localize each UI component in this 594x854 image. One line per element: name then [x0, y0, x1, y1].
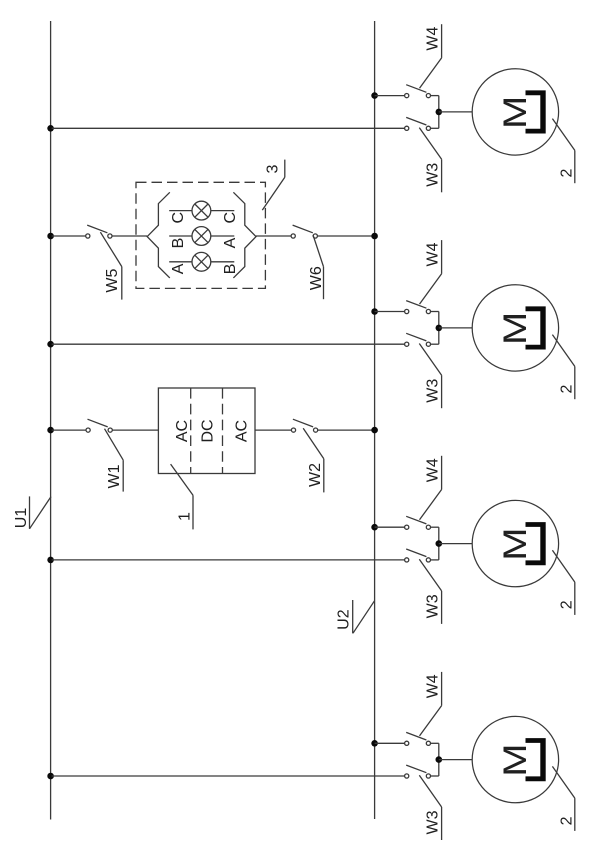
label W2 leader	[303, 428, 324, 459]
node: left bus tap row4	[47, 773, 54, 780]
svg-text:3: 3	[264, 164, 281, 173]
switch W3 contact circles (branch 4)	[405, 774, 409, 778]
wire: bus to W4 contact branch 4	[375, 742, 405, 744]
wire: lamp 3 right lead	[211, 261, 235, 263]
svg-text:B: B	[170, 238, 187, 249]
label W1 underline	[122, 460, 124, 492]
label 2 leader diagonal (branch 2)	[552, 335, 574, 367]
connector brace left	[147, 192, 170, 278]
label W4 leader (branch 3)	[420, 490, 442, 520]
svg-text:AC: AC	[234, 420, 251, 442]
converter unit 1 box	[158, 388, 255, 474]
wire: W3 to junction bar (branch 2)	[431, 343, 439, 345]
svg-text:W6: W6	[308, 266, 325, 290]
switch W5 contact circles	[86, 234, 90, 238]
svg-text:U1: U1	[13, 508, 30, 529]
wire: left bus to switch W5	[52, 235, 86, 237]
wire: feed row from left bus to contact W3 (branch 2)	[52, 343, 405, 345]
switch W2 contact circles	[291, 428, 295, 432]
label W6 underline	[323, 267, 325, 300]
wire: W4 to junction bar (branch 3)	[431, 526, 439, 528]
wire: junction to motor (branch 3)	[439, 543, 472, 545]
wire: junction to motor (branch 1)	[439, 111, 472, 113]
svg-text:M: M	[497, 743, 533, 776]
svg-text:M: M	[497, 312, 533, 345]
wire: W5 to lamp unit connector	[112, 235, 147, 237]
label W5 underline	[121, 267, 123, 300]
node: left bus tap row2	[47, 341, 54, 348]
lamp unit 3 dashed enclosure	[136, 182, 265, 288]
motor M circle (branch 3)	[472, 500, 558, 586]
svg-text:2: 2	[558, 816, 575, 825]
label W3 underline (branch 2)	[441, 375, 443, 408]
wire: junction to motor (branch 2)	[439, 327, 472, 329]
svg-text:W4: W4	[424, 26, 441, 50]
label W4 underline (branch 4)	[441, 672, 443, 706]
wire: lamp unit connector to W6	[256, 235, 291, 237]
label U1 underline	[29, 496, 31, 528]
label W4 leader (branch 2)	[420, 274, 442, 304]
label 2 underline (branch 1)	[574, 150, 576, 183]
wire: bus to W4 contact branch 2	[375, 311, 405, 313]
svg-text:B: B	[222, 264, 239, 275]
svg-text:W4: W4	[424, 242, 441, 266]
lamp 3 cross	[195, 255, 208, 268]
switch W4 blade (branch 1)	[406, 85, 426, 93]
svg-text:A: A	[170, 263, 187, 274]
label W4 underline (branch 1)	[441, 24, 443, 58]
switch W4 contact circles (branch 4)	[405, 741, 409, 745]
label W3 underline (branch 3)	[441, 591, 443, 624]
svg-text:W4: W4	[424, 674, 441, 698]
wire: junction bar (branch 2)	[438, 312, 440, 345]
svg-text:W3: W3	[424, 594, 441, 618]
switch W4 contact circles (branch 2)	[405, 309, 409, 313]
svg-text:C: C	[170, 212, 187, 224]
motor M underline bracket (branch 1)	[526, 90, 546, 133]
label W3 leader (branch 1)	[419, 128, 441, 160]
node: left bus tap lamp row	[47, 233, 54, 240]
wire: W1 to converter box	[112, 429, 158, 431]
switch W5 blade	[87, 225, 107, 233]
motor M circle (branch 1)	[472, 69, 558, 155]
svg-text:W3: W3	[424, 810, 441, 834]
switch W3 blade (branch 1)	[406, 117, 426, 125]
label W3 leader (branch 3)	[419, 559, 441, 591]
label 2 leader diagonal (branch 3)	[552, 550, 574, 582]
switch W3 contact circles (branch 3)	[405, 558, 409, 562]
switch W6 blade	[293, 225, 313, 233]
svg-text:2: 2	[558, 385, 575, 394]
node: right bus junction W4 branch 4	[371, 740, 378, 747]
label W4 underline (branch 2)	[441, 240, 443, 274]
converter divider dashed right	[222, 388, 224, 474]
converter divider dashed left	[190, 388, 192, 474]
motor M underline bracket (branch 2)	[526, 306, 546, 349]
svg-text:AC: AC	[174, 420, 191, 442]
wire: W4 to junction bar (branch 4)	[431, 742, 439, 744]
label W4 leader (branch 4)	[420, 706, 442, 736]
wire: W4 to junction bar (branch 2)	[431, 311, 439, 313]
wire: junction to motor (branch 4)	[439, 759, 472, 761]
lamp 2 cross	[195, 229, 208, 242]
label W4 underline (branch 3)	[441, 456, 443, 490]
wire: feed row from left bus to contact W3 (branch 4)	[52, 775, 405, 777]
wire: bus to W4 contact branch 1	[375, 95, 405, 97]
label 2 leader diagonal (branch 4)	[552, 766, 574, 798]
switch W3 blade (branch 3)	[406, 549, 426, 557]
node: branch 3 output junction	[436, 540, 443, 547]
label U1 leader	[30, 497, 52, 529]
svg-text:W3: W3	[424, 163, 441, 187]
lamp 2 circle	[192, 227, 211, 246]
wire: feed row from left bus to contact W3 (branch 1)	[52, 127, 405, 129]
motor M underline bracket (branch 4)	[526, 738, 546, 781]
lamp 1 cross	[195, 204, 208, 217]
wire: converter box to W2	[255, 429, 291, 431]
switch W4 blade (branch 3)	[406, 516, 426, 524]
label 2 leader diagonal (branch 1)	[552, 119, 574, 151]
label U2 leader	[353, 601, 375, 633]
motor M circle (branch 2)	[472, 285, 558, 371]
switch W1 contact circles	[86, 428, 90, 432]
label W3 underline (branch 4)	[441, 807, 443, 840]
svg-text:W1: W1	[106, 464, 123, 488]
switch W6 contact circles	[291, 234, 295, 238]
connector brace right	[233, 192, 256, 278]
switch W3 contact circles (branch 1)	[405, 126, 409, 130]
wire: W2 to right bus	[318, 429, 375, 431]
switch W4 contact circles (branch 1)	[405, 94, 409, 98]
wire: junction bar (branch 1)	[438, 96, 440, 129]
switch W4 contact circles (branch 3)	[405, 525, 409, 529]
wire: lamp 2 right lead	[211, 235, 235, 237]
switch W4 blade (branch 4)	[406, 732, 426, 740]
motor M underline bracket (branch 3)	[526, 522, 546, 565]
svg-text:U2: U2	[336, 609, 353, 630]
label 1 underline	[192, 495, 194, 529]
wire: junction bar (branch 4)	[438, 743, 440, 776]
lamp 1 circle	[192, 201, 211, 220]
node: branch 1 output junction	[436, 109, 443, 116]
label U2 underline	[352, 600, 354, 633]
wire: right distribution bus U2	[374, 21, 376, 819]
wire: W4 to junction bar (branch 1)	[431, 95, 439, 97]
label W3 leader (branch 4)	[419, 775, 441, 807]
label W2 underline	[323, 459, 325, 493]
lamp 3 circle	[192, 252, 211, 271]
switch W3 blade (branch 2)	[406, 333, 426, 341]
wire: lamp 3 left lead	[169, 261, 192, 263]
switch W2 blade	[293, 419, 313, 427]
node: right bus junction W4 branch 1	[371, 92, 378, 99]
svg-text:M: M	[497, 527, 533, 560]
svg-text:1: 1	[176, 512, 193, 521]
label 2 underline (branch 3)	[574, 582, 576, 615]
label 2 underline (branch 2)	[574, 366, 576, 399]
wire: junction bar (branch 3)	[438, 527, 440, 560]
wire: bus to W4 contact branch 3	[375, 526, 405, 528]
node: branch 4 output junction	[436, 756, 443, 763]
wire: lamp 2 left lead	[169, 235, 192, 237]
wire: feed row from left bus to contact W3 (branch 3)	[52, 559, 405, 561]
wire: left bus to switch W1	[52, 429, 86, 431]
label W3 underline (branch 1)	[441, 159, 443, 192]
label W4 leader (branch 1)	[420, 58, 442, 88]
switch W4 blade (branch 2)	[406, 301, 426, 309]
wire: lamp 1 left lead	[169, 210, 192, 212]
label 2 underline (branch 4)	[574, 798, 576, 831]
wire: W3 to junction bar (branch 4)	[431, 775, 439, 777]
svg-text:2: 2	[558, 600, 575, 609]
svg-text:C: C	[222, 212, 239, 224]
svg-text:A: A	[222, 237, 239, 248]
label 3 underline	[284, 160, 286, 178]
node: right bus junction converter row	[371, 427, 378, 434]
svg-text:W2: W2	[307, 463, 324, 487]
label W3 leader (branch 2)	[419, 344, 441, 376]
svg-text:W3: W3	[424, 379, 441, 403]
label W5 leader	[100, 232, 121, 266]
motor M circle (branch 4)	[472, 716, 558, 802]
node: left bus tap row3	[47, 557, 54, 564]
label 1 leader	[171, 464, 193, 495]
svg-text:M: M	[497, 96, 533, 129]
switch W1 blade	[88, 419, 108, 427]
node: right bus junction W4 branch 2	[371, 308, 378, 315]
label 3 leader	[262, 177, 285, 210]
switch W3 contact circles (branch 2)	[405, 342, 409, 346]
wire: W3 to junction bar (branch 3)	[431, 559, 439, 561]
node: branch 2 output junction	[436, 325, 443, 332]
label W1 leader	[105, 429, 124, 460]
node: right bus junction lamp row	[371, 233, 378, 240]
node: right bus junction W4 branch 3	[371, 524, 378, 531]
label W6 leader	[313, 235, 324, 267]
wire: left supply bus U1	[50, 21, 52, 820]
svg-text:2: 2	[558, 169, 575, 178]
wire: W6 to right bus	[317, 235, 374, 237]
wire: W3 to junction bar (branch 1)	[431, 127, 439, 129]
node: left bus tap converter row	[47, 427, 54, 434]
switch W3 blade (branch 4)	[406, 765, 426, 773]
svg-text:W5: W5	[104, 268, 121, 292]
node: left bus tap row1 y=128.3	[47, 125, 54, 132]
wire: lamp 1 right lead	[211, 210, 235, 212]
svg-text:DC: DC	[199, 419, 216, 442]
svg-text:W4: W4	[424, 458, 441, 482]
